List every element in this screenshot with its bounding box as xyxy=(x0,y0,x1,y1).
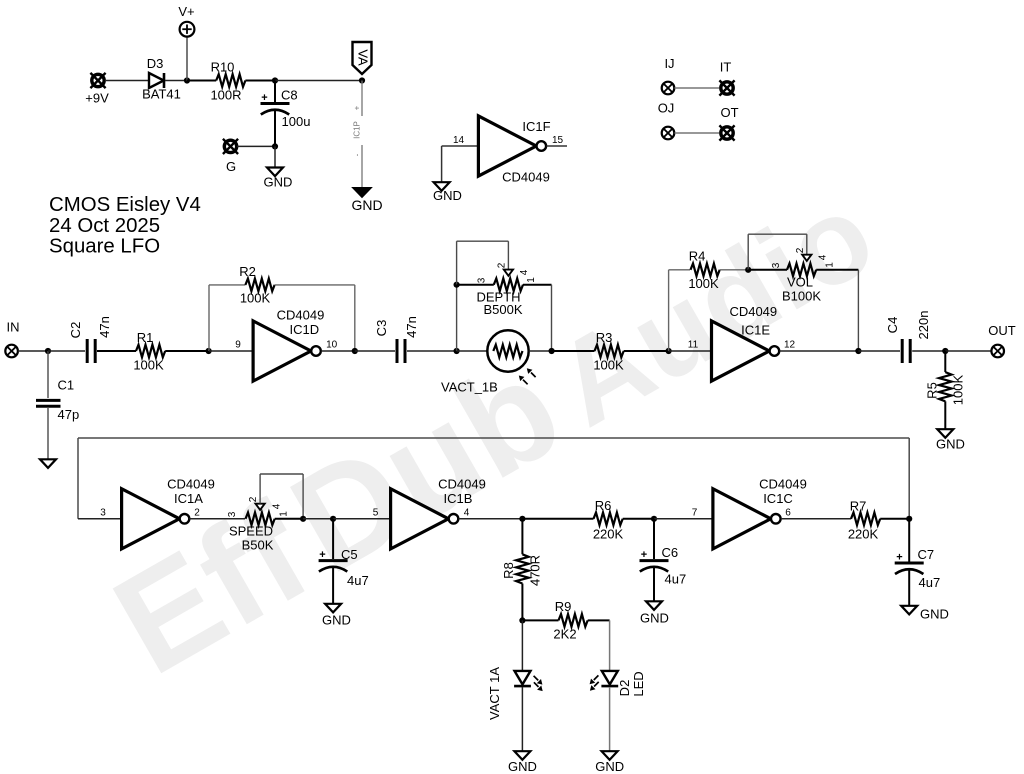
ground IC1P xyxy=(351,188,382,213)
node junction dot R7/C7/rail xyxy=(906,516,912,522)
terminal OJ xyxy=(658,100,675,139)
svg-text:C2: C2 xyxy=(68,322,83,339)
svg-text:+: + xyxy=(261,92,267,104)
svg-text:+: + xyxy=(353,105,362,110)
resistor R1 100K xyxy=(97,330,209,372)
ground under VACT1A xyxy=(508,751,537,774)
resistor R9 2K2 xyxy=(522,599,609,641)
svg-text:LED: LED xyxy=(631,671,646,696)
svg-text:7: 7 xyxy=(692,508,698,519)
svg-text:4: 4 xyxy=(818,254,829,260)
svg-text:+: + xyxy=(319,549,325,561)
svg-text:GND: GND xyxy=(264,175,293,190)
svg-text:GND: GND xyxy=(351,197,382,213)
svg-text:IC1E: IC1E xyxy=(741,322,770,337)
svg-text:IC1C: IC1C xyxy=(763,491,793,506)
svg-text:GND: GND xyxy=(640,610,669,625)
svg-text:14: 14 xyxy=(453,135,465,146)
node junction dot C3/DEPTH/VACT xyxy=(454,348,460,354)
svg-text:VOL: VOL xyxy=(787,275,813,290)
svg-text:220K: 220K xyxy=(593,527,624,542)
wire node to C3 xyxy=(355,350,395,352)
svg-text:OUT: OUT xyxy=(988,323,1016,338)
node junction dot C8/G/GND xyxy=(272,143,278,149)
resistor R10 100R xyxy=(187,59,275,102)
svg-text:24 Oct 2025: 24 Oct 2025 xyxy=(49,215,160,237)
svg-text:OJ: OJ xyxy=(658,100,675,115)
svg-text:IN: IN xyxy=(7,320,20,335)
ground under C8 xyxy=(264,146,293,189)
svg-text:IC1P: IC1P xyxy=(353,121,362,139)
wire node up to DEPTH xyxy=(456,285,458,351)
op-amp inverter IC1D xyxy=(253,307,324,381)
svg-text:C4: C4 xyxy=(885,317,900,334)
capacitor C4 220n xyxy=(885,311,931,363)
potentiometer VOL B100K xyxy=(748,234,858,304)
svg-text:+: + xyxy=(641,549,647,561)
svg-text:Square LFO: Square LFO xyxy=(49,236,160,258)
wire R2 down to output node xyxy=(354,285,356,351)
wire IC1F output xyxy=(547,145,568,147)
svg-text:-: - xyxy=(353,153,362,156)
wire node down to VACT1A xyxy=(521,620,523,670)
terminal IT xyxy=(719,59,734,95)
svg-text:15: 15 xyxy=(552,135,564,146)
svg-text:CD4049: CD4049 xyxy=(167,477,215,492)
wire OJ to OT xyxy=(675,132,720,134)
terminal G xyxy=(223,139,238,174)
resistor R3 100K xyxy=(552,330,669,372)
svg-text:R7: R7 xyxy=(850,499,867,514)
node junction dot VACT/DEPTH/R3 xyxy=(549,348,555,354)
wire node to VA xyxy=(275,80,362,82)
svg-text:IC1B: IC1B xyxy=(444,491,473,506)
svg-text:470R: 470R xyxy=(528,555,543,586)
svg-text:3: 3 xyxy=(100,508,106,519)
svg-text:100u: 100u xyxy=(282,114,311,129)
svg-text:1: 1 xyxy=(526,277,537,283)
svg-text:IT: IT xyxy=(720,59,732,74)
svg-text:CD4049: CD4049 xyxy=(438,477,486,492)
wire node to IC1D xyxy=(209,350,253,352)
terminal IN xyxy=(5,320,19,358)
wire VACT_1B to node xyxy=(529,350,552,352)
capacitor C6 4u7 xyxy=(640,519,687,601)
svg-text:GND: GND xyxy=(920,607,949,622)
svg-text:VA: VA xyxy=(356,49,371,66)
wire IC1A output to SPEED xyxy=(189,518,245,520)
wire node up to R2 xyxy=(208,285,210,351)
svg-text:CMOS Eisley V4: CMOS Eisley V4 xyxy=(49,194,201,216)
wire IC1B output xyxy=(459,518,523,520)
svg-text:1: 1 xyxy=(279,511,290,517)
ground under C7 xyxy=(901,606,949,622)
svg-text:CD4049: CD4049 xyxy=(729,304,777,319)
wire node to C4 xyxy=(858,350,900,352)
op-amp inverter IC1E xyxy=(712,304,780,381)
potentiometer DEPTH B500K xyxy=(457,241,552,317)
svg-text:R3: R3 xyxy=(596,330,613,345)
svg-text:CD4049: CD4049 xyxy=(759,477,807,492)
svg-text:4: 4 xyxy=(272,503,283,509)
svg-text:GND: GND xyxy=(936,436,965,451)
wire IC1E output xyxy=(780,350,859,352)
wire C4 to node xyxy=(912,350,945,352)
wire C1 to ground xyxy=(47,407,49,459)
IC1P minus lead xyxy=(353,145,363,187)
node VA flag xyxy=(353,42,372,74)
node junction dot R4/VOL xyxy=(745,267,751,273)
IC1P power pin + lead xyxy=(353,81,363,117)
capacitor C3 47n xyxy=(374,316,419,363)
svg-text:12: 12 xyxy=(784,340,796,351)
resistor R7 220K xyxy=(848,499,909,542)
svg-text:C3: C3 xyxy=(374,320,389,337)
wire R9 down to D2 xyxy=(609,620,611,670)
wire IC1F input xyxy=(442,146,479,182)
capacitor C5 4u7 xyxy=(319,519,369,604)
svg-text:4u7: 4u7 xyxy=(665,572,687,587)
wire DEPTH down to node xyxy=(551,285,553,351)
terminal IJ xyxy=(662,56,675,94)
svg-text:2K2: 2K2 xyxy=(553,627,576,642)
svg-text:OT: OT xyxy=(720,105,738,120)
svg-text:IC1F: IC1F xyxy=(522,119,550,134)
wire IN to node xyxy=(18,350,48,352)
watermark EffDub Audio xyxy=(89,149,897,704)
resistor R4 100K feedback xyxy=(669,249,749,291)
svg-text:VACT_1B: VACT_1B xyxy=(441,380,498,395)
node junction dot at VA xyxy=(359,77,365,83)
wire D2 to ground xyxy=(609,687,611,751)
svg-text:C8: C8 xyxy=(281,88,298,103)
node junction dot R1/R2/IC1D xyxy=(206,348,212,354)
wire node to IC1C xyxy=(654,518,713,520)
svg-text:100K: 100K xyxy=(240,291,271,306)
svg-text:SPEED: SPEED xyxy=(229,523,273,538)
svg-text:VACT 1A: VACT 1A xyxy=(487,667,502,720)
svg-text:220n: 220n xyxy=(916,311,931,340)
svg-text:R6: R6 xyxy=(595,498,612,513)
svg-text:11: 11 xyxy=(688,340,699,351)
wire node to C2 xyxy=(48,350,85,352)
svg-text:GND: GND xyxy=(322,613,351,628)
node junction dot R3/R4/IC1E xyxy=(666,348,672,354)
svg-text:2: 2 xyxy=(795,247,806,253)
svg-text:2: 2 xyxy=(497,262,508,268)
node junction dot C4/R5/OUT xyxy=(942,348,948,354)
resistor R2 100K feedback xyxy=(209,264,355,305)
wire IC1D output xyxy=(321,350,355,352)
svg-text:3: 3 xyxy=(771,262,782,268)
svg-text:C5: C5 xyxy=(341,547,358,562)
ground under C1 xyxy=(40,459,56,468)
svg-text:47n: 47n xyxy=(97,316,112,338)
svg-text:IC1D: IC1D xyxy=(289,322,319,337)
svg-text:D2: D2 xyxy=(617,680,632,697)
svg-text:GND: GND xyxy=(595,759,624,774)
node junction dot at D3/R10/V+ xyxy=(184,77,190,83)
capacitor C8 100u xyxy=(261,81,311,147)
svg-text:5: 5 xyxy=(373,508,379,519)
svg-text:4u7: 4u7 xyxy=(347,573,369,588)
svg-text:C7: C7 xyxy=(918,547,935,562)
svg-text:4: 4 xyxy=(519,269,530,275)
svg-text:GND: GND xyxy=(508,759,537,774)
title block xyxy=(49,194,201,258)
wire node to OUT xyxy=(945,350,991,352)
svg-text:R9: R9 xyxy=(555,599,572,614)
svg-text:C6: C6 xyxy=(662,545,679,560)
LED D2 xyxy=(590,671,646,697)
svg-text:3: 3 xyxy=(227,511,238,517)
wire node to VACT_1B xyxy=(457,350,488,352)
svg-text:100K: 100K xyxy=(951,374,966,405)
capacitor C7 4u7 xyxy=(895,519,941,606)
ground under C6 xyxy=(640,601,669,625)
diode D3 BAT41 xyxy=(142,56,181,102)
svg-text:CD4049: CD4049 xyxy=(502,170,550,185)
svg-text:10: 10 xyxy=(326,340,338,351)
svg-text:D3: D3 xyxy=(147,56,164,71)
op-amp inverter IC1B xyxy=(391,477,486,549)
svg-text:+9V: +9V xyxy=(85,91,109,106)
svg-text:G: G xyxy=(226,159,236,174)
terminal OUT xyxy=(988,323,1016,357)
svg-text:100K: 100K xyxy=(133,357,164,372)
svg-text:47p: 47p xyxy=(58,407,80,422)
svg-text:C1: C1 xyxy=(58,378,75,393)
node junction dot R8/R9/VACT1A xyxy=(519,617,525,623)
wire VOL down to output node xyxy=(857,270,859,351)
svg-text:220K: 220K xyxy=(848,526,879,541)
wire G to node xyxy=(237,145,275,147)
capacitor C2 47n xyxy=(68,316,112,363)
svg-text:100K: 100K xyxy=(688,276,719,291)
wire D3 to node xyxy=(165,80,187,82)
node junction dot C5 xyxy=(330,516,336,522)
svg-text:B100K: B100K xyxy=(782,289,821,304)
wire +9V to D3 xyxy=(105,80,149,82)
svg-text:1: 1 xyxy=(825,262,836,268)
wire LFO feedback top rail xyxy=(78,438,909,519)
svg-text:R2: R2 xyxy=(239,264,256,279)
wire rail to IC1A xyxy=(78,518,122,520)
svg-text:+: + xyxy=(896,552,902,564)
ground under D2 xyxy=(595,751,624,774)
svg-text:IJ: IJ xyxy=(664,56,674,71)
terminal OT xyxy=(719,105,738,140)
op-amp inverter U1F IC1F xyxy=(478,116,550,185)
svg-text:100R: 100R xyxy=(210,88,241,103)
wire node up to R4 xyxy=(668,270,670,351)
svg-text:6: 6 xyxy=(785,508,791,519)
node junction dot SPEED top rail xyxy=(300,516,306,522)
ground under R5 xyxy=(936,429,965,451)
svg-text:B500K: B500K xyxy=(483,302,522,317)
wire VACT1A to ground xyxy=(521,687,523,751)
svg-text:R4: R4 xyxy=(689,249,706,264)
svg-text:4: 4 xyxy=(464,508,470,519)
wire node down to C1 xyxy=(47,351,49,398)
wire C3 to node xyxy=(407,350,457,352)
photoresistor VACT_1B xyxy=(441,330,536,394)
svg-text:4u7: 4u7 xyxy=(919,575,941,590)
node junction dot at R10/C8 xyxy=(272,77,278,83)
ground IC1F xyxy=(433,182,462,203)
svg-text:9: 9 xyxy=(235,340,241,351)
resistor R6 220K xyxy=(522,498,654,542)
node junction dot IC1E/VOL/C4 xyxy=(855,348,861,354)
svg-text:GND: GND xyxy=(433,188,462,203)
svg-text:R5: R5 xyxy=(925,382,940,399)
resistor R5 100K xyxy=(925,351,966,429)
power symbol V+ xyxy=(178,4,194,37)
wire SPEED to C5 node xyxy=(303,518,333,520)
capacitor C1 47p xyxy=(36,378,79,422)
svg-text:R1: R1 xyxy=(137,330,154,345)
node junction dot IC1B/R6/R8 xyxy=(519,516,525,522)
svg-text:V+: V+ xyxy=(178,4,194,19)
wire IC1C output xyxy=(781,518,851,520)
wire node to IC1E xyxy=(669,350,712,352)
LED VACT 1A xyxy=(487,667,543,720)
wire IJ to IT xyxy=(675,87,720,89)
wire node to IC1B xyxy=(333,518,391,520)
svg-text:IC1A: IC1A xyxy=(174,491,203,506)
node junction dot DEPTH pin3 xyxy=(454,282,460,288)
svg-text:BAT41: BAT41 xyxy=(142,87,181,102)
resistor R8 470R xyxy=(501,519,543,621)
terminal +9V xyxy=(85,73,109,106)
potentiometer SPEED B50K xyxy=(227,474,303,552)
wire node to V+ xyxy=(186,37,188,81)
svg-text:2: 2 xyxy=(248,496,259,502)
svg-text:R8: R8 xyxy=(501,562,516,579)
svg-text:CD4049: CD4049 xyxy=(277,307,325,322)
op-amp inverter IC1C xyxy=(713,477,807,549)
svg-text:47n: 47n xyxy=(404,316,419,338)
ground under C5 xyxy=(322,604,351,628)
node junction dot IN/C1/C2 xyxy=(45,348,51,354)
svg-text:B50K: B50K xyxy=(242,537,274,552)
svg-text:3: 3 xyxy=(477,277,488,283)
node junction dot IC1D/R2/C3 xyxy=(352,348,358,354)
op-amp inverter IC1A xyxy=(122,477,215,549)
svg-text:R10: R10 xyxy=(211,59,235,74)
svg-text:2: 2 xyxy=(194,508,200,519)
node junction dot R6/C6/IC1C xyxy=(651,516,657,522)
svg-text:100K: 100K xyxy=(593,357,624,372)
